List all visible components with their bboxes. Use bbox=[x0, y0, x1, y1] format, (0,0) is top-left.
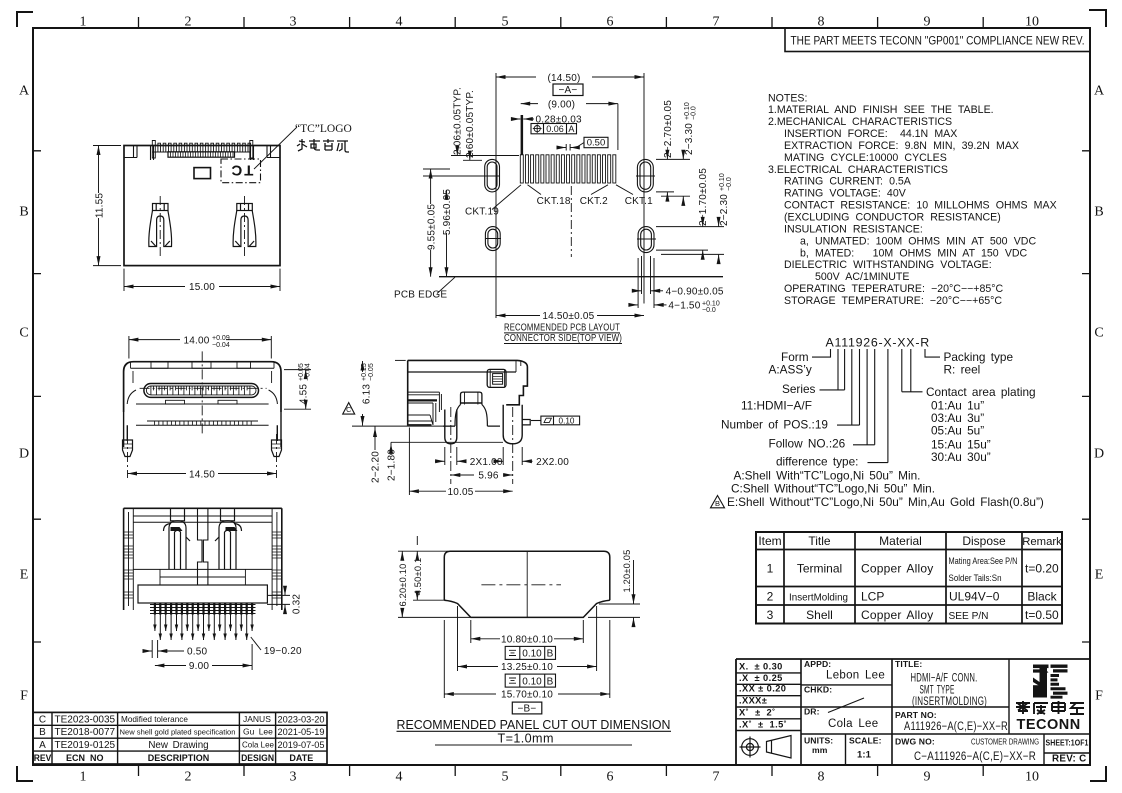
dim 5.96 bbox=[451, 474, 513, 476]
svg-text:Number of POS.:19: Number of POS.:19 bbox=[721, 418, 828, 432]
svg-text:Solder Tails:Sn: Solder Tails:Sn bbox=[949, 573, 1002, 583]
svg-text:2−1.70±0.05: 2−1.70±0.05 bbox=[698, 168, 709, 226]
svg-text:(INSERTMOLDING): (INSERTMOLDING) bbox=[912, 696, 987, 708]
VIEW 6: panel cut out bbox=[397, 536, 672, 746]
dim 14.50 bbox=[128, 473, 277, 475]
svg-text:5.96: 5.96 bbox=[478, 471, 499, 482]
svg-text:0.32: 0.32 bbox=[292, 594, 303, 615]
leader difference bbox=[868, 349, 888, 463]
svg-text:SCALE:: SCALE: bbox=[849, 736, 882, 746]
svg-text:DESCRIPTION: DESCRIPTION bbox=[148, 753, 210, 763]
svg-text:6.13: 6.13 bbox=[362, 384, 373, 405]
svg-text:1: 1 bbox=[80, 770, 87, 785]
svg-text:4−1.50: 4−1.50 bbox=[668, 300, 700, 311]
svg-text:C:Shell Without“TC”Logo,Ni 50u: C:Shell Without“TC”Logo,Ni 50u” Min. bbox=[731, 482, 935, 496]
svg-text:A111926−A(C,E)−XX−R: A111926−A(C,E)−XX−R bbox=[904, 721, 1008, 733]
svg-text:3: 3 bbox=[290, 15, 297, 30]
svg-text:TECONN: TECONN bbox=[1017, 717, 1081, 733]
latch wing left bbox=[149, 204, 172, 247]
svg-text:05:Au 5u”: 05:Au 5u” bbox=[931, 424, 984, 438]
fake CJK 泰康电子 bbox=[1016, 701, 1084, 714]
svg-text:9.00: 9.00 bbox=[189, 661, 210, 672]
svg-text:14.00: 14.00 bbox=[184, 335, 210, 346]
dim 0.32 bbox=[267, 588, 290, 612]
leader packing bbox=[925, 349, 940, 357]
leader follow bbox=[853, 349, 875, 445]
svg-text:Follow NO.:26: Follow NO.:26 bbox=[769, 437, 846, 451]
svg-text:−0.0: −0.0 bbox=[702, 307, 716, 314]
svg-text:0.10: 0.10 bbox=[522, 649, 542, 660]
side contact ticks bbox=[124, 532, 282, 598]
dim 9.00 bbox=[155, 644, 252, 670]
svg-text:2: 2 bbox=[767, 590, 774, 604]
leader positions bbox=[837, 349, 860, 425]
svg-text:difference type:: difference type: bbox=[776, 455, 858, 469]
dim 4.50 bbox=[413, 536, 446, 600]
svg-text:APPD:: APPD: bbox=[804, 659, 831, 669]
svg-text:1:1: 1:1 bbox=[857, 750, 872, 761]
svg-text:A:ASS’y: A:ASS’y bbox=[769, 363, 812, 377]
svg-text:Black: Black bbox=[1027, 590, 1057, 604]
notes block bbox=[768, 92, 1057, 307]
svg-text:RATING CURRENT: 0.5A: RATING CURRENT: 0.5A bbox=[784, 176, 912, 188]
svg-text:CKT.18: CKT.18 bbox=[537, 196, 571, 207]
flatness FCF bbox=[531, 416, 580, 425]
svg-text:13.25±0.10: 13.25±0.10 bbox=[501, 662, 553, 673]
svg-text:2−2.20: 2−2.20 bbox=[371, 451, 382, 483]
svg-text:4.50±0.1: 4.50±0.1 bbox=[413, 558, 423, 596]
svg-text:E: E bbox=[1095, 568, 1104, 583]
svg-text:HDMI−A/F CONN.: HDMI−A/F CONN. bbox=[911, 673, 978, 685]
svg-text:B: B bbox=[547, 676, 554, 687]
svg-text:TE2023-0035: TE2023-0035 bbox=[54, 714, 115, 725]
svg-text:4.55: 4.55 bbox=[299, 384, 310, 405]
VIEW 1: connector top view bbox=[93, 123, 352, 293]
svg-text:.XX ± 0.20: .XX ± 0.20 bbox=[739, 684, 786, 694]
dim 6.13 bbox=[362, 361, 364, 426]
svg-text:Item: Item bbox=[758, 534, 781, 548]
svg-text:RATING VOLTAGE: 40V: RATING VOLTAGE: 40V bbox=[784, 188, 907, 200]
svg-text:.X ± 0.25: .X ± 0.25 bbox=[739, 673, 783, 683]
svg-text:−B−: −B− bbox=[518, 703, 537, 714]
comb teeth bbox=[152, 141, 253, 159]
svg-text:2019-07-05: 2019-07-05 bbox=[278, 740, 325, 750]
shell outline bbox=[124, 362, 281, 412]
dim (14.50) bbox=[496, 73, 644, 318]
svg-text:2X2.00: 2X2.00 bbox=[536, 457, 569, 468]
svg-text:INSERTION FORCE: 44.1N MAX: INSERTION FORCE: 44.1N MAX bbox=[784, 128, 957, 140]
svg-text:2.60±0.05TYP.: 2.60±0.05TYP. bbox=[465, 90, 476, 158]
svg-text:5: 5 bbox=[502, 770, 509, 785]
dim 13.25 bbox=[458, 606, 597, 671]
svg-text:9: 9 bbox=[924, 770, 931, 785]
svg-text:NOTES:: NOTES: bbox=[768, 92, 807, 104]
svg-text:2−2.70±0.05: 2−2.70±0.05 bbox=[663, 100, 674, 158]
dim 2X2.00 bbox=[494, 447, 533, 465]
outer body bbox=[124, 507, 282, 509]
leader series bbox=[820, 349, 845, 390]
svg-text:C: C bbox=[1094, 326, 1103, 341]
svg-text:“TC”LOGO: “TC”LOGO bbox=[295, 123, 352, 135]
svg-text:B: B bbox=[547, 649, 554, 660]
svg-text:b, MATED: 10M OHMS MIN AT 15: b, MATED: 10M OHMS MIN AT 150 VDC bbox=[800, 247, 1028, 259]
svg-text:F: F bbox=[20, 689, 28, 704]
svg-text:30:Au 30u”: 30:Au 30u” bbox=[931, 450, 991, 464]
latch wing right bbox=[233, 204, 256, 247]
svg-text:F: F bbox=[1095, 689, 1103, 704]
svg-text:B: B bbox=[39, 727, 46, 738]
svg-text:UL94V−0: UL94V−0 bbox=[949, 590, 1000, 604]
center block bbox=[461, 392, 482, 404]
svg-text:A:Shell With“TC”Logo,Ni 50u” M: A:Shell With“TC”Logo,Ni 50u” Min. bbox=[734, 469, 921, 483]
svg-text:0.10: 0.10 bbox=[559, 416, 575, 425]
svg-text:−A−: −A− bbox=[559, 85, 578, 96]
svg-text:DESIGN: DESIGN bbox=[241, 753, 274, 763]
svg-text:THE PART MEETS TECONN "GP001": THE PART MEETS TECONN "GP001" COMPLIANCE… bbox=[791, 33, 1085, 47]
svg-text:SEE P/N: SEE P/N bbox=[949, 610, 989, 622]
svg-text:2021-05-19: 2021-05-19 bbox=[278, 727, 325, 737]
tongue pins bbox=[151, 386, 250, 395]
svg-text:CKT.2: CKT.2 bbox=[580, 196, 608, 207]
dim 4-0.90 bbox=[629, 256, 667, 308]
dim 0.50 boxed bbox=[584, 137, 608, 147]
svg-text:6: 6 bbox=[607, 770, 614, 785]
svg-text:2: 2 bbox=[185, 15, 192, 30]
svg-text:5.96±0.05: 5.96±0.05 bbox=[442, 189, 453, 235]
VIEW 4: side view bbox=[343, 360, 580, 498]
svg-text:DWG NO:: DWG NO: bbox=[895, 737, 935, 747]
dim 1.20 bbox=[588, 560, 640, 627]
svg-text:Shell: Shell bbox=[806, 608, 833, 622]
svg-text:B: B bbox=[1094, 205, 1103, 220]
svg-text:A111926-X-XX-R: A111926-X-XX-R bbox=[826, 336, 930, 350]
svg-text:−0.04: −0.04 bbox=[212, 342, 230, 349]
svg-text:MATING CYCLE:10000 CYCLES: MATING CYCLE:10000 CYCLES bbox=[784, 152, 947, 164]
striped bar bbox=[168, 152, 235, 157]
third angle projection symbols bbox=[740, 736, 792, 759]
svg-text:A: A bbox=[39, 740, 46, 751]
svg-text:t=0.50: t=0.50 bbox=[1025, 608, 1059, 622]
svg-text:D: D bbox=[1094, 447, 1104, 462]
centerlines bbox=[201, 351, 203, 436]
dim 2X1.00 bbox=[435, 447, 467, 465]
FCF 1 bbox=[505, 646, 555, 659]
dim 0.50 bbox=[144, 640, 185, 658]
svg-text:Material: Material bbox=[879, 534, 922, 548]
svg-text:Terminal: Terminal bbox=[797, 562, 842, 576]
svg-text:(EXCLUDING CONDUCTOR RESISTANC: (EXCLUDING CONDUCTOR RESISTANCE) bbox=[784, 212, 1001, 224]
svg-text:A: A bbox=[568, 124, 574, 134]
svg-text:6.20±0.10: 6.20±0.10 bbox=[398, 563, 408, 606]
centerlines bbox=[526, 551, 528, 617]
svg-text:CONTACT RESISTANCE: 10 MILLOHM: CONTACT RESISTANCE: 10 MILLOHMS OHMS MAX bbox=[784, 200, 1057, 212]
revision triangle B bbox=[711, 496, 725, 508]
top notches bbox=[151, 362, 168, 369]
right foot pad bbox=[522, 420, 530, 425]
svg-text:Lebon Lee: Lebon Lee bbox=[826, 670, 885, 682]
fake CJK 为可选项 bbox=[297, 139, 349, 152]
svg-text:TE2019-0125: TE2019-0125 bbox=[54, 740, 115, 751]
right leg bbox=[503, 405, 522, 444]
svg-text:6: 6 bbox=[607, 15, 614, 30]
svg-text:t=0.20: t=0.20 bbox=[1025, 562, 1059, 576]
svg-text:−0.0: −0.0 bbox=[726, 177, 733, 191]
svg-text:New shell gold plated specific: New shell gold plated specification bbox=[120, 728, 236, 737]
leader plating bbox=[902, 349, 923, 392]
datum -B- bbox=[512, 702, 542, 714]
svg-text:11:HDMI−A/F: 11:HDMI−A/F bbox=[741, 399, 812, 413]
svg-text:2−3.30: 2−3.30 bbox=[684, 123, 695, 155]
svg-text:Dispose: Dispose bbox=[962, 534, 1006, 548]
FCF 2 bbox=[505, 674, 555, 687]
svg-text:−0.0: −0.0 bbox=[691, 106, 698, 120]
svg-text:5: 5 bbox=[502, 15, 509, 30]
datum -A- bbox=[553, 84, 583, 96]
title block bbox=[736, 659, 1090, 765]
svg-text:INSULATION RESISTANCE:: INSULATION RESISTANCE: bbox=[784, 223, 923, 235]
svg-text:15.70±0.10: 15.70±0.10 bbox=[501, 690, 553, 701]
svg-text:RECOMMENDED PCB LAYOUT: RECOMMENDED PCB LAYOUT bbox=[504, 323, 620, 334]
leg centerlines bbox=[451, 407, 513, 484]
lower inner structure bbox=[136, 403, 269, 405]
dim 4.55 bbox=[284, 370, 311, 410]
svg-text:C: C bbox=[346, 407, 351, 414]
svg-text:E:Shell Without“TC”Logo,Ni 50u: E:Shell Without“TC”Logo,Ni 50u” Min,Au G… bbox=[727, 495, 1044, 509]
svg-text:SHEET:1OF1: SHEET:1OF1 bbox=[1046, 738, 1089, 748]
lower structure bbox=[133, 568, 272, 570]
dim 11.55 bbox=[93, 146, 121, 266]
svg-text:1: 1 bbox=[767, 562, 774, 576]
svg-text:Mating Area:See P/N: Mating Area:See P/N bbox=[949, 556, 1018, 566]
svg-text:C−A111926−A(C,E)−XX−R: C−A111926−A(C,E)−XX−R bbox=[914, 751, 1036, 763]
dim 6.20 bbox=[398, 551, 470, 617]
svg-text:A: A bbox=[1094, 84, 1105, 99]
svg-text:.X˚ ± 1.5˚: .X˚ ± 1.5˚ bbox=[739, 720, 787, 730]
svg-text:10: 10 bbox=[1025, 770, 1039, 785]
svg-text:OPERATING TEPERATURE: −20°C−−+: OPERATING TEPERATURE: −20°C−−+85°C bbox=[784, 283, 1004, 295]
svg-text:New Drawing: New Drawing bbox=[148, 740, 208, 751]
svg-text:CHKD:: CHKD: bbox=[804, 685, 832, 695]
bottom comb bbox=[136, 421, 269, 425]
foot centerlines bbox=[128, 434, 277, 478]
svg-text:EXTRACTION FORCE: 9.8N MIN, 39: EXTRACTION FORCE: 9.8N MIN, 39.2N MAX bbox=[784, 140, 1019, 152]
svg-text:Cola Lee: Cola Lee bbox=[242, 740, 274, 750]
pin comb with arrows bbox=[150, 605, 256, 614]
svg-text:(14.50): (14.50) bbox=[547, 73, 580, 84]
svg-text:15.00: 15.00 bbox=[189, 282, 215, 293]
svg-text:TC: TC bbox=[229, 162, 253, 179]
left contact stack bbox=[408, 392, 442, 425]
svg-text:B: B bbox=[715, 499, 720, 508]
svg-text:4−0.90±0.05: 4−0.90±0.05 bbox=[666, 286, 724, 297]
svg-text:C: C bbox=[19, 326, 28, 341]
svg-text:CKT.1: CKT.1 bbox=[625, 196, 653, 207]
svg-text:Gu Lee: Gu Lee bbox=[243, 727, 273, 737]
svg-text:10.05: 10.05 bbox=[447, 487, 473, 498]
svg-text:Modified tolerance: Modified tolerance bbox=[121, 715, 188, 724]
svg-text:1.MATERIAL AND FINISH SEE THE: 1.MATERIAL AND FINISH SEE THE TABLE. bbox=[768, 104, 994, 116]
dim 0.28 bbox=[511, 118, 534, 120]
svg-text:Copper Alloy: Copper Alloy bbox=[861, 562, 933, 576]
shoulder notches bbox=[124, 146, 154, 161]
dim 15.00 bbox=[124, 269, 280, 291]
svg-text:0.10: 0.10 bbox=[522, 676, 542, 687]
svg-text:14.50: 14.50 bbox=[189, 469, 215, 480]
svg-text:11.55: 11.55 bbox=[95, 193, 106, 219]
svg-text:−0.04: −0.04 bbox=[305, 363, 312, 381]
svg-text:RECOMMENDED PANEL CUT OUT DIME: RECOMMENDED PANEL CUT OUT DIMENSION bbox=[397, 718, 671, 732]
svg-text:1.20±0.05: 1.20±0.05 bbox=[622, 549, 632, 592]
svg-text:T=1.0mm: T=1.0mm bbox=[498, 732, 554, 746]
dim 9.55 bbox=[423, 169, 501, 277]
svg-text:2: 2 bbox=[185, 770, 192, 785]
svg-text:InsertMolding: InsertMolding bbox=[789, 592, 848, 604]
svg-text:19−0.20: 19−0.20 bbox=[264, 646, 302, 657]
svg-text:500V AC/1MINUTE: 500V AC/1MINUTE bbox=[815, 271, 909, 283]
svg-text:.XXX±: .XXX± bbox=[739, 696, 767, 706]
svg-text:C: C bbox=[39, 714, 46, 725]
svg-text:4: 4 bbox=[396, 15, 403, 30]
svg-text:0.06: 0.06 bbox=[546, 124, 564, 134]
dim 5.96 bbox=[446, 190, 448, 277]
latch clip bbox=[487, 369, 506, 387]
compliance banner bbox=[785, 28, 1090, 52]
left leg bbox=[445, 410, 457, 444]
oval pads bbox=[485, 159, 654, 252]
svg-text:ECN NO: ECN NO bbox=[66, 753, 104, 763]
svg-text:R: reel: R: reel bbox=[944, 363, 981, 377]
svg-text:mm: mm bbox=[812, 745, 828, 755]
VIEW 5: rear view with terminals bbox=[124, 508, 303, 672]
side wing curves bbox=[127, 390, 277, 404]
dim 2-1.80 bbox=[390, 444, 392, 455]
feet bbox=[123, 440, 133, 457]
svg-text:2023-03-20: 2023-03-20 bbox=[278, 714, 325, 724]
top view body bbox=[124, 146, 280, 266]
svg-text:0.50: 0.50 bbox=[187, 647, 208, 658]
VIEW 3: front (mating face) view bbox=[123, 335, 312, 480]
svg-text:4: 4 bbox=[396, 770, 403, 785]
svg-text:X˚ ± 2˚: X˚ ± 2˚ bbox=[739, 708, 776, 718]
svg-text:−0.05: −0.05 bbox=[368, 363, 375, 381]
extended pad bar bbox=[521, 115, 524, 155]
svg-text:DATE: DATE bbox=[289, 753, 313, 763]
svg-text:CONNECTOR SIDE(TOP VIEW): CONNECTOR SIDE(TOP VIEW) bbox=[504, 333, 622, 344]
svg-text:2.06±0.05TYP.: 2.06±0.05TYP. bbox=[452, 87, 463, 155]
svg-text:Contact area plating: Contact area plating bbox=[926, 385, 1036, 399]
svg-text:3.ELECTRICAL CHARACTERISTICS: 3.ELECTRICAL CHARACTERISTICS bbox=[768, 164, 948, 176]
svg-text:Cola Lee: Cola Lee bbox=[828, 718, 878, 730]
dim 14.00 bbox=[129, 336, 271, 359]
svg-text:14.50±0.05: 14.50±0.05 bbox=[542, 311, 594, 322]
dim 10.80 bbox=[471, 620, 584, 643]
teconn logo bbox=[1016, 665, 1084, 734]
svg-text:Remark: Remark bbox=[1022, 536, 1062, 548]
svg-text:Series: Series bbox=[782, 382, 816, 396]
svg-text:JANUS: JANUS bbox=[243, 714, 271, 724]
svg-text:REV: C: REV: C bbox=[1052, 754, 1086, 765]
center line bbox=[570, 186, 572, 257]
svg-text:Copper Alloy: Copper Alloy bbox=[861, 608, 933, 622]
dim 2-2.20 bbox=[374, 428, 376, 439]
svg-text:D: D bbox=[19, 447, 29, 462]
svg-text:DIELECTRIC WITHSTANDING VOLTAG: DIELECTRIC WITHSTANDING VOLTAGE: bbox=[784, 259, 992, 271]
dim (9.00) bbox=[521, 104, 618, 150]
svg-text:TITLE:: TITLE: bbox=[895, 659, 922, 669]
cutout outline bbox=[444, 551, 610, 600]
latch arch right bbox=[215, 508, 242, 569]
svg-text:PART NO:: PART NO: bbox=[895, 710, 937, 720]
svg-text:CUSTOMER DRAWING: CUSTOMER DRAWING bbox=[971, 737, 1039, 747]
svg-text:9.55±0.05: 9.55±0.05 bbox=[426, 204, 437, 250]
dim 14.50±0.05 bbox=[496, 315, 644, 317]
leader form bbox=[812, 349, 831, 357]
wing centerline bbox=[159, 196, 161, 259]
svg-text:E: E bbox=[20, 568, 29, 583]
material table bbox=[756, 532, 1062, 624]
svg-text:X. ± 0.30: X. ± 0.30 bbox=[739, 662, 783, 672]
svg-text:2X1.00: 2X1.00 bbox=[470, 457, 503, 468]
svg-text:2.MECHANICAL CHARACTERISTICS: 2.MECHANICAL CHARACTERISTICS bbox=[768, 116, 952, 128]
ext lines bbox=[352, 360, 503, 442]
svg-text:a, UNMATED: 100M OHMS MIN AT 5: a, UNMATED: 100M OHMS MIN AT 500 VDC bbox=[800, 235, 1036, 247]
pad comb 19 pads bbox=[520, 155, 616, 183]
svg-text:REV: REV bbox=[34, 753, 52, 763]
svg-text:DR:: DR: bbox=[804, 707, 820, 717]
svg-text:8: 8 bbox=[818, 770, 825, 785]
body outline bbox=[408, 360, 528, 404]
part number breakdown diagram bbox=[711, 336, 1044, 509]
svg-text:2−1.80: 2−1.80 bbox=[387, 449, 398, 481]
VIEW 2: recommended PCB layout bbox=[394, 73, 733, 344]
svg-text:A: A bbox=[19, 84, 30, 99]
svg-text:STORAGE TEMPERATURE: −20°C−−+6: STORAGE TEMPERATURE: −20°C−−+65°C bbox=[784, 295, 1002, 307]
svg-text:7: 7 bbox=[713, 15, 720, 30]
svg-text:1: 1 bbox=[80, 15, 87, 30]
center leg flare bbox=[443, 405, 500, 427]
svg-text:B: B bbox=[19, 205, 28, 220]
pcb edge line bbox=[439, 276, 723, 278]
svg-text:3: 3 bbox=[290, 770, 297, 785]
tongue bbox=[144, 384, 259, 398]
svg-text:SMT TYPE: SMT TYPE bbox=[920, 685, 955, 697]
dim 15.70 bbox=[444, 620, 610, 698]
revision table bbox=[33, 712, 327, 764]
svg-text:Title: Title bbox=[808, 534, 831, 548]
position tolerance frame bbox=[531, 124, 577, 134]
svg-text:10.80±0.10: 10.80±0.10 bbox=[501, 635, 553, 646]
svg-text:7: 7 bbox=[713, 770, 720, 785]
svg-text:(9.00): (9.00) bbox=[548, 99, 575, 110]
svg-text:3: 3 bbox=[767, 608, 774, 622]
dim 10.05 bbox=[409, 428, 512, 496]
small rect feature bbox=[194, 168, 211, 179]
svg-text:UNITS:: UNITS: bbox=[804, 736, 833, 746]
TC logo box (dash-dot) bbox=[221, 159, 261, 183]
latch arch left bbox=[164, 508, 191, 569]
revision triangle C bbox=[343, 403, 355, 415]
svg-text:2−2.30: 2−2.30 bbox=[719, 194, 730, 226]
top inner edge bbox=[133, 521, 272, 523]
inner top line bbox=[131, 367, 275, 369]
svg-text:LCP: LCP bbox=[861, 590, 884, 604]
TC logo leader bbox=[254, 127, 297, 169]
center slot bbox=[198, 508, 208, 585]
svg-text:TE2018-0077: TE2018-0077 bbox=[54, 727, 115, 738]
svg-text:0.50: 0.50 bbox=[587, 138, 606, 149]
